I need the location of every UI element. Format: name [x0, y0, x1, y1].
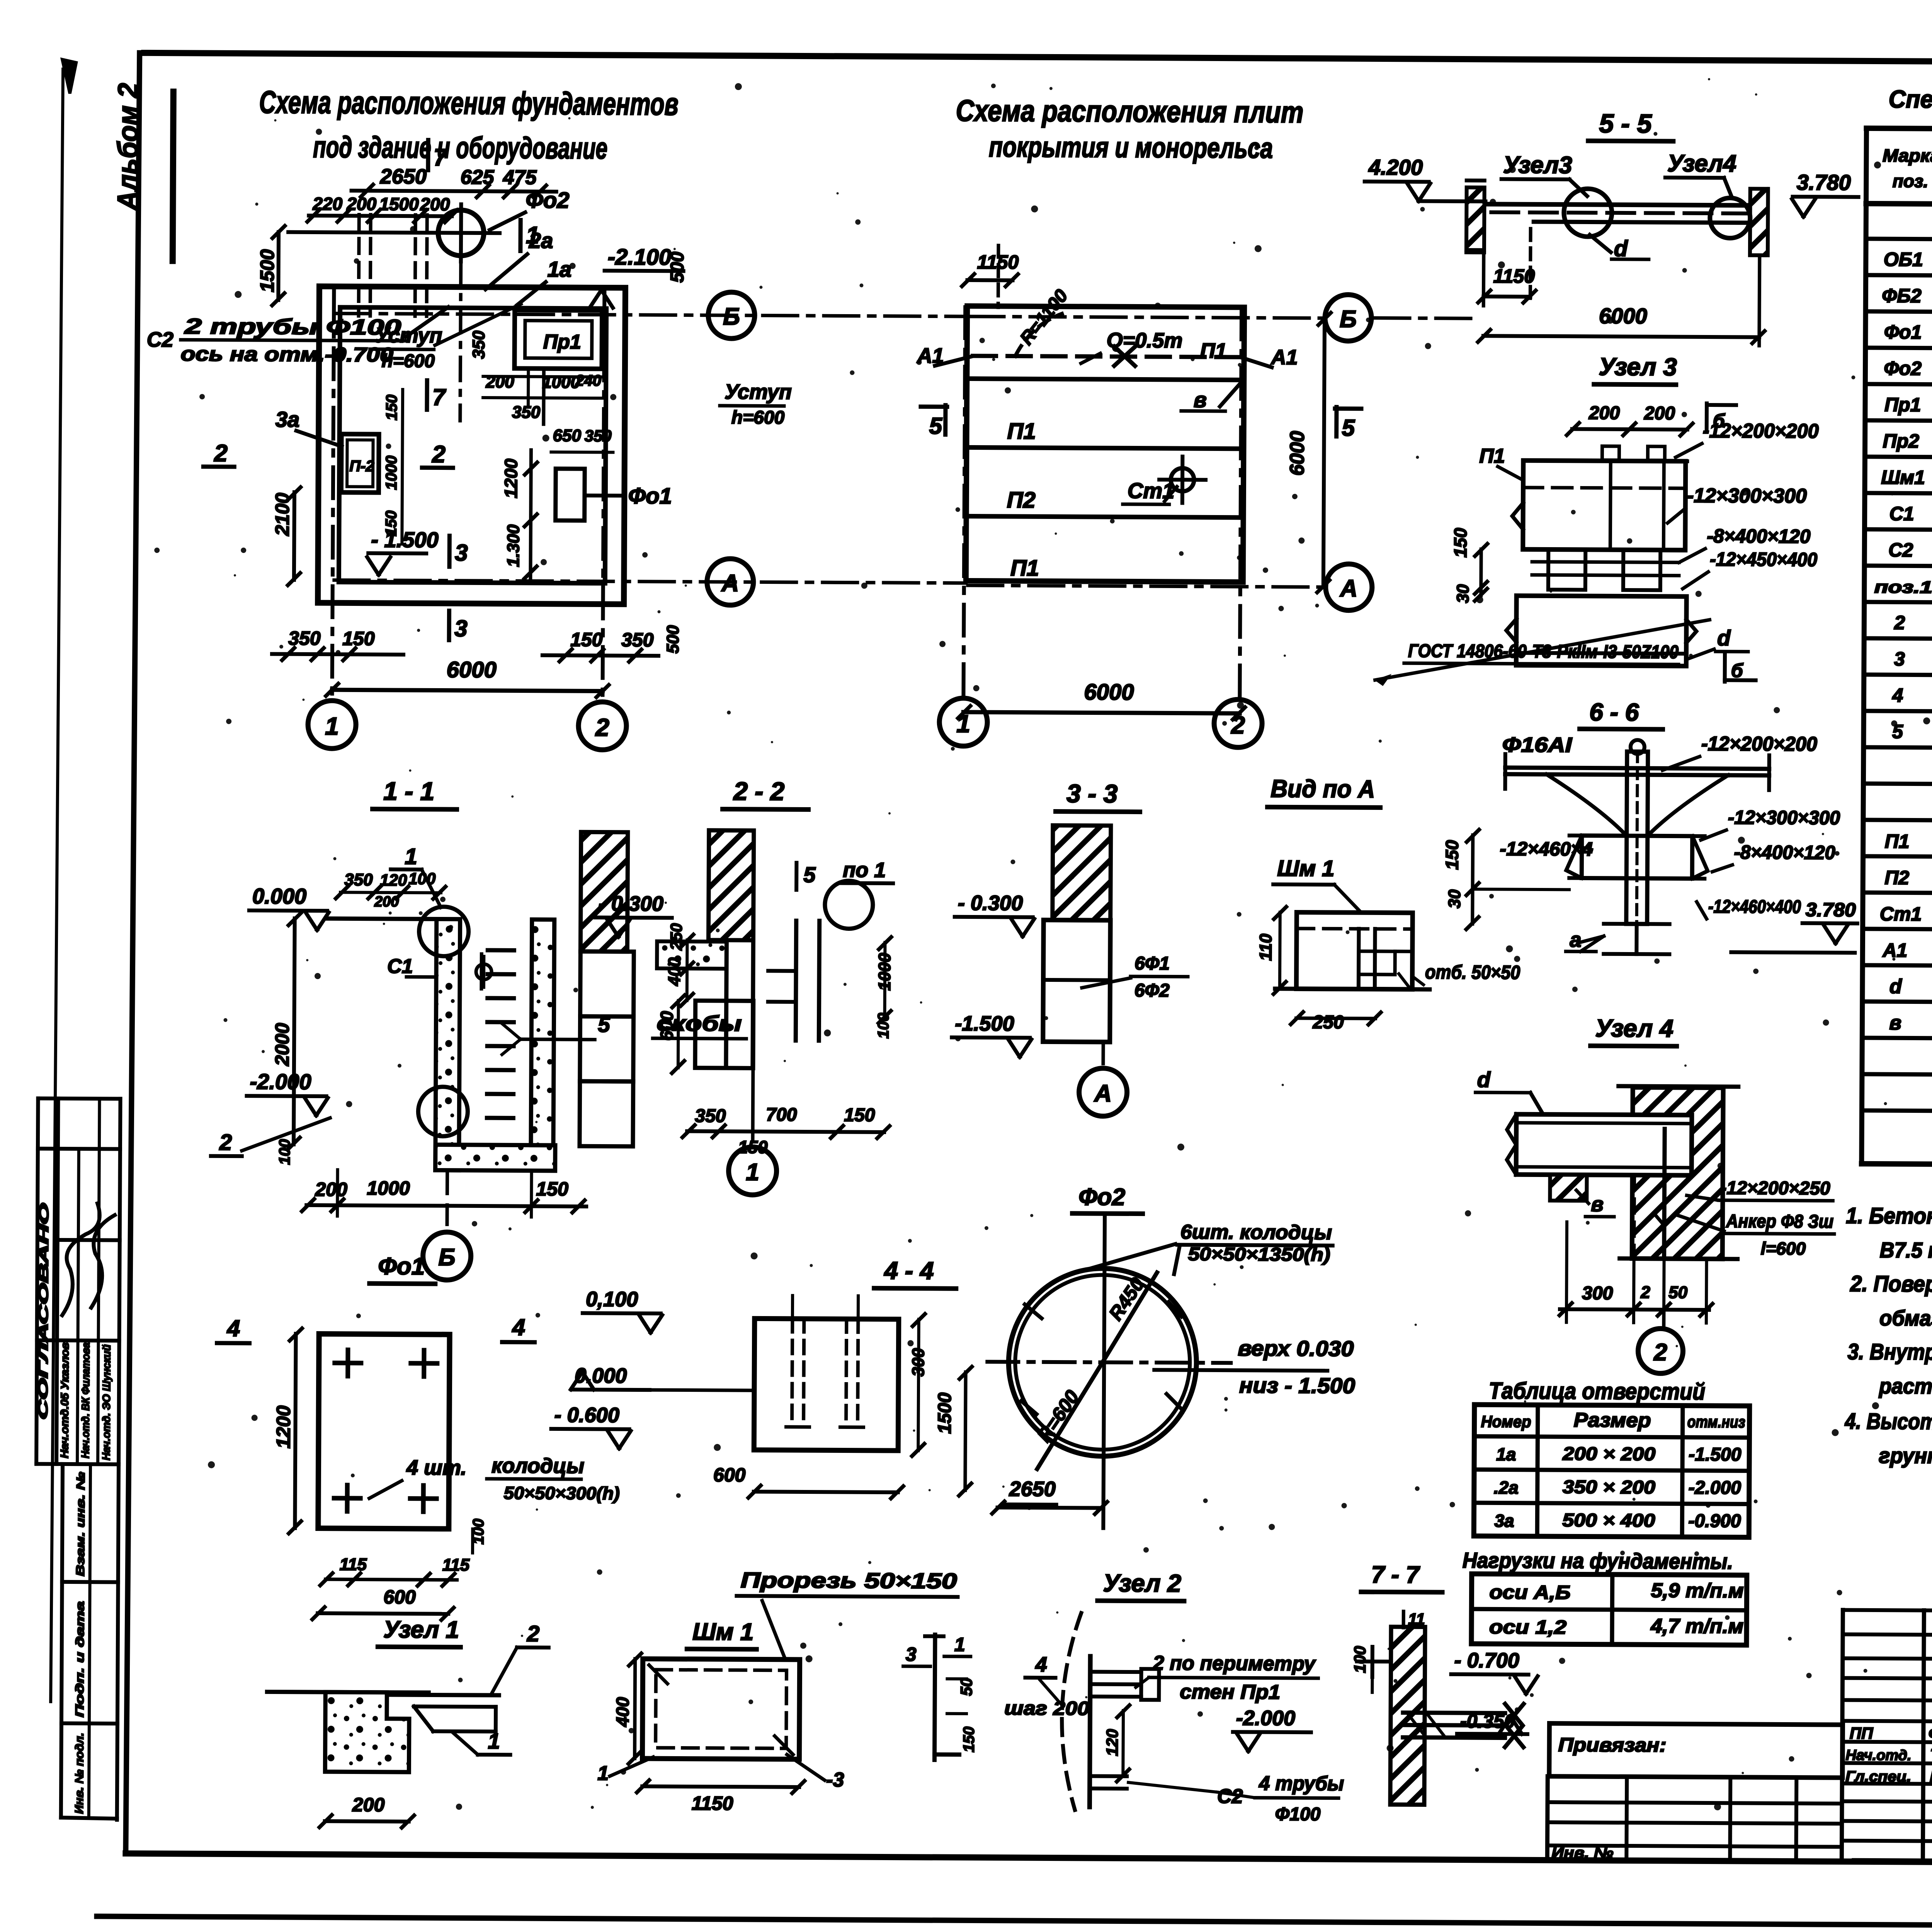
- axis line Б: [335, 313, 967, 316]
- left margin stamp grid СОГЛАСОВАНО: [38, 1099, 121, 1099]
- svg-text:Узел3: Узел3: [1503, 151, 1572, 179]
- svg-text:7: 7: [434, 144, 448, 171]
- svg-text:-2.000: -2.000: [1236, 1706, 1295, 1730]
- 7-7 top mark 11: [1402, 1611, 1405, 1628]
- svg-text:150: 150: [1450, 528, 1470, 558]
- pit П-2 outer: [341, 434, 379, 492]
- svg-text:Нач.отд.05 Указлов: Нач.отд.05 Указлов: [58, 1342, 71, 1458]
- svg-text:- 0.700: - 0.700: [1454, 1649, 1519, 1672]
- svg-text:в: в: [1591, 1193, 1604, 1216]
- svg-text:а: а: [1570, 928, 1581, 951]
- svg-text:50×50×1350(h): 50×50×1350(h): [1188, 1244, 1330, 1265]
- plan TM outer rect: [966, 306, 1244, 582]
- foundation Фо1 rect in plan: [556, 469, 585, 520]
- svg-text:1: 1: [597, 1762, 609, 1784]
- svg-text:Пр1: Пр1: [1884, 394, 1921, 415]
- plan TM slab line 2: [967, 447, 1244, 449]
- svg-text:3. Внутренние поверхности п: 3. Внутренние поверхности приямка Пр1 за…: [1847, 1339, 1932, 1367]
- svg-text:Альбом 2: Альбом 2: [111, 83, 144, 211]
- drawing frame left border: [126, 53, 139, 1854]
- svg-text:Нач.отд. ЭО Шунский: Нач.отд. ЭО Шунский: [100, 1344, 112, 1460]
- 1-1 pipe С1 symbol: [480, 954, 483, 989]
- section mark 3 inner: [447, 536, 452, 567]
- svg-text:4: 4: [512, 1314, 526, 1340]
- svg-text:1. Бетонную подготовку под: 1. Бетонную подготовку под приямки выпол…: [1846, 1203, 1932, 1232]
- svg-text:2000: 2000: [271, 1023, 293, 1066]
- svg-text:1: 1: [405, 844, 417, 869]
- svg-text:Уступ: Уступ: [724, 380, 792, 404]
- svg-text:Пр2: Пр2: [1883, 430, 1919, 452]
- svg-text:Марка: Марка: [1883, 145, 1932, 166]
- holes table grid: [1474, 1405, 1750, 1537]
- svg-text:отб. 50×50: отб. 50×50: [1425, 961, 1520, 983]
- svg-text:-2.100: -2.100: [608, 245, 672, 270]
- svg-text:240: 240: [575, 372, 601, 389]
- svg-text:400: 400: [612, 1697, 633, 1727]
- svg-text:0,100: 0,100: [586, 1287, 638, 1311]
- svg-text:Ст1: Ст1: [1880, 903, 1922, 925]
- svg-text:2: 2: [1640, 1283, 1650, 1302]
- svg-text:1: 1: [325, 712, 339, 740]
- svg-text:700: 700: [766, 1105, 797, 1125]
- svg-text:5: 5: [929, 413, 943, 439]
- Фо2 radius R=600: [1037, 1362, 1102, 1469]
- paper corner mark top-left: [62, 60, 76, 94]
- Фо2 radius R450: [1102, 1272, 1157, 1363]
- svg-text:6000: 6000: [447, 657, 497, 683]
- svg-text:Филатова: Филатова: [1929, 1725, 1932, 1743]
- 3-3 masonry hatch column: [1053, 825, 1111, 920]
- 7-7 pipes through wall: [1403, 1713, 1505, 1713]
- plan TL dim row 2650 825 475: [352, 190, 556, 191]
- plan TL crosshair axis down: [460, 262, 461, 421]
- signature squiggles: [62, 1203, 100, 1315]
- svg-text:Привязан:: Привязан:: [1558, 1734, 1667, 1756]
- svg-text:600: 600: [713, 1464, 746, 1486]
- svg-text:П1: П1: [1885, 830, 1910, 852]
- svg-text:ПП: ПП: [1850, 1724, 1873, 1742]
- pit Пр1 inner: [525, 321, 592, 359]
- svg-text:3 - 3: 3 - 3: [1066, 779, 1117, 808]
- svg-text:200: 200: [374, 894, 399, 910]
- left lower grid rows: [1548, 1776, 1842, 1778]
- svg-text:1200: 1200: [272, 1405, 294, 1449]
- svg-text:6000: 6000: [1084, 679, 1134, 705]
- svg-text:625: 625: [461, 166, 495, 189]
- 1-1 trench left wall concrete: [435, 919, 460, 1170]
- plan TL dashed pipe risers: [359, 215, 359, 316]
- svg-text:1500: 1500: [934, 1392, 955, 1434]
- svg-text:6000: 6000: [1286, 431, 1309, 476]
- svg-text:6Ф1: 6Ф1: [1134, 953, 1170, 974]
- svg-text:П2: П2: [1007, 487, 1036, 512]
- svg-text:150: 150: [1442, 840, 1462, 870]
- svg-text:200: 200: [1644, 403, 1675, 423]
- svg-text:Фо2: Фо2: [1078, 1184, 1125, 1211]
- svg-text:4.200: 4.200: [1368, 155, 1423, 180]
- svg-text:-12×300×300: -12×300×300: [1687, 485, 1807, 507]
- Фо2 leader 6шт колодцы: [1083, 1243, 1175, 1271]
- plan TL outer wall: [318, 286, 626, 604]
- svg-text:2: 2: [432, 441, 446, 468]
- pit Пр1 outer: [514, 310, 602, 369]
- svg-text:3.780: 3.780: [1806, 899, 1856, 921]
- Узел3 lower beam: [1517, 596, 1687, 597]
- svg-text:- 0.300: - 0.300: [958, 891, 1023, 915]
- svg-text:Взам. инв. №: Взам. инв. №: [74, 1472, 87, 1576]
- svg-text:Схема расположения фундаментов: Схема расположения фундаментов: [259, 85, 678, 122]
- svg-text:115: 115: [442, 1556, 470, 1575]
- svg-text:А: А: [1094, 1080, 1112, 1107]
- svg-text:Подп. и дата: Подп. и дата: [73, 1601, 87, 1717]
- svg-text:Темкин: Темкин: [1930, 1746, 1932, 1764]
- svg-text:100: 100: [408, 869, 435, 888]
- section mark 5 right: [1334, 407, 1338, 436]
- svg-text:Инв. № подл.: Инв. № подл.: [73, 1733, 86, 1814]
- svg-text:-8×400×120: -8×400×120: [1734, 841, 1835, 863]
- Узел1 bracket: [388, 1695, 499, 1695]
- svg-text:3: 3: [1894, 648, 1905, 670]
- svg-text:- 0.300: - 0.300: [599, 892, 663, 915]
- svg-text:11: 11: [1408, 1610, 1425, 1628]
- plan TL axis 1 extension: [332, 289, 334, 701]
- 4-4 body rect: [754, 1318, 899, 1451]
- svg-text:600: 600: [383, 1586, 416, 1608]
- svg-text:0.000: 0.000: [575, 1364, 627, 1388]
- axis circle 1: [308, 701, 356, 749]
- svg-text:С2: С2: [147, 328, 173, 351]
- plan TM slab line 3: [966, 516, 1243, 517]
- svg-text:5: 5: [598, 1012, 610, 1036]
- svg-text:2: 2: [527, 1621, 540, 1646]
- svg-text:d: d: [1477, 1067, 1491, 1092]
- svg-text:С1: С1: [387, 955, 413, 978]
- 1-1 detail circle bottom: [418, 1087, 468, 1136]
- svg-text:650: 650: [553, 426, 582, 445]
- svg-text:350: 350: [621, 629, 654, 651]
- svg-text:2: 2: [595, 713, 609, 741]
- svg-text:А: А: [1339, 575, 1357, 602]
- svg-text:-12×300×300: -12×300×300: [1728, 806, 1840, 828]
- spec table grid: [1866, 128, 1932, 132]
- svg-text:350: 350: [512, 403, 541, 422]
- svg-text:Шм1: Шм1: [1881, 466, 1925, 488]
- svg-text:100: 100: [276, 1139, 293, 1165]
- svg-text:1: 1: [746, 1159, 759, 1185]
- axis line А: [334, 580, 966, 583]
- svg-text:120: 120: [380, 871, 407, 889]
- 1-1 inner rungs скобы: [488, 948, 514, 952]
- svg-text:5: 5: [1342, 415, 1355, 441]
- svg-text:200: 200: [315, 1179, 347, 1200]
- svg-text:Фо1: Фо1: [1884, 321, 1922, 343]
- pit П-2 inner: [347, 440, 373, 486]
- plan TL inner wall: [339, 307, 606, 583]
- 2-2 block: [695, 1001, 753, 1068]
- svg-text:300: 300: [1582, 1283, 1613, 1303]
- svg-text:4: 4: [1035, 1653, 1047, 1676]
- svg-text:-12×200×200: -12×200×200: [1703, 420, 1819, 442]
- Узел4 wall bottom line: [1620, 1259, 1738, 1259]
- svg-text:Узел4: Узел4: [1667, 150, 1736, 177]
- plan TL dim row 220 200 1500 200: [309, 216, 452, 216]
- 7-7 arrow marks right: [1505, 1704, 1523, 1747]
- svg-text:150: 150: [844, 1105, 875, 1125]
- axis circle 1 TM: [939, 698, 988, 747]
- svg-text:3: 3: [906, 1643, 917, 1665]
- svg-text:2 по периметру: 2 по периметру: [1153, 1652, 1316, 1675]
- svg-text:150: 150: [961, 1726, 978, 1752]
- 1-1 trench right wall: [531, 920, 554, 1145]
- svg-text:.2а: .2а: [1494, 1477, 1519, 1497]
- beam 5-5 right support hatch: [1750, 189, 1768, 255]
- svg-text:50×50×300(h): 50×50×300(h): [504, 1483, 620, 1503]
- svg-text:ось на отм.-0.700: ось на отм.-0.700: [180, 343, 393, 366]
- axis circle Б shared: [708, 292, 755, 339]
- Шм1 corner slash marks: [649, 1665, 667, 1684]
- svg-text:6Ф2: 6Ф2: [1134, 980, 1170, 1001]
- svg-text:Фо1: Фо1: [378, 1253, 425, 1280]
- svg-text:- 1.500: - 1.500: [371, 527, 439, 552]
- 1-1 axis circle Б: [446, 1170, 449, 1225]
- svg-text:d: d: [1614, 236, 1628, 261]
- Вид по А body: [1296, 912, 1413, 989]
- svg-text:Гл.спец.: Гл.спец.: [1845, 1769, 1911, 1785]
- plan TM slab line 1: [967, 379, 1244, 380]
- svg-text:2650: 2650: [380, 165, 427, 189]
- svg-text:Узел 3: Узел 3: [1599, 353, 1677, 381]
- svg-text:4 трубы: 4 трубы: [1259, 1772, 1344, 1795]
- svg-text:50: 50: [1668, 1283, 1688, 1302]
- svg-text:6шт. колодцы: 6шт. колодцы: [1180, 1221, 1332, 1244]
- svg-text:100: 100: [1351, 1646, 1369, 1673]
- svg-text:2: 2: [1231, 711, 1245, 739]
- svg-text:Б: Б: [1340, 306, 1357, 332]
- svg-text:поз.: поз.: [1893, 171, 1929, 191]
- svg-text:d: d: [1889, 975, 1902, 998]
- 2-2 ledge plate: [657, 941, 726, 969]
- svg-text:С2: С2: [1888, 539, 1913, 561]
- 2-2 rungs: [768, 969, 792, 973]
- section mark 3 below: [447, 611, 451, 640]
- svg-text:1: 1: [954, 1634, 965, 1655]
- svg-text:30: 30: [1445, 889, 1464, 908]
- svg-text:-0.900: -0.900: [1688, 1511, 1741, 1532]
- svg-text:1500: 1500: [256, 249, 278, 293]
- svg-text:1а: 1а: [1496, 1444, 1516, 1464]
- drawing frame top border: [144, 53, 1932, 65]
- svg-text:1а: 1а: [548, 257, 572, 281]
- svg-text:оси А,Б: оси А,Б: [1489, 1581, 1570, 1603]
- 3-3 axis circle А: [1101, 1042, 1105, 1064]
- svg-text:3: 3: [455, 540, 468, 566]
- svg-text:350: 350: [288, 628, 321, 649]
- left margin stamp grid inv no: [61, 1464, 63, 1818]
- monorail x mark: [1114, 347, 1135, 366]
- Узел4 beam white over wall: [1516, 1114, 1692, 1175]
- axis circle 2 TM: [1214, 699, 1262, 748]
- svg-text:Инв. №: Инв. №: [1551, 1844, 1613, 1862]
- 2-2 wall below: [726, 940, 727, 1068]
- svg-text:1.300: 1.300: [504, 524, 523, 567]
- svg-text:4 шт.: 4 шт.: [406, 1456, 467, 1480]
- 1-1 ground line: [327, 918, 439, 919]
- beam 5-5 left support hatch: [1466, 187, 1485, 250]
- svg-text:250: 250: [1312, 1012, 1344, 1032]
- svg-text:- 0.600: - 0.600: [554, 1403, 619, 1427]
- svg-text:2: 2: [1653, 1339, 1667, 1366]
- svg-text:1000: 1000: [383, 456, 400, 490]
- svg-text:Спецификация к схемам располож: Спецификация к схемам расположения фунда…: [1889, 85, 1932, 117]
- svg-text:120: 120: [1103, 1729, 1121, 1756]
- Узел4 axis circle 2: [1662, 1310, 1665, 1328]
- Фо2 axis horizontal dash-dot: [987, 1362, 1231, 1363]
- svg-text:Узел 1: Узел 1: [383, 1616, 459, 1643]
- Привязан box: [1549, 1723, 1843, 1778]
- svg-text:по 1: по 1: [843, 858, 886, 882]
- 1-1 masonry hatch column: [580, 832, 628, 952]
- svg-text:П1: П1: [1479, 445, 1505, 467]
- svg-text:2: 2: [214, 440, 228, 467]
- Фо2 axis vertical: [1103, 1216, 1105, 1528]
- svg-text:Б: Б: [438, 1244, 455, 1271]
- svg-text:5,9 т/п.м: 5,9 т/п.м: [1651, 1579, 1743, 1602]
- svg-text:-12×450×400: -12×450×400: [1710, 548, 1817, 570]
- Узел4 angle seat: [1550, 1175, 1587, 1201]
- svg-text:2. Поверхности фундаментных: 2. Поверхности фундаментных блоков, прик…: [1850, 1271, 1932, 1300]
- svg-text:отм.низ: отм.низ: [1687, 1413, 1745, 1431]
- svg-text:обмазать битумом за 2 раза.: обмазать битумом за 2 раза.: [1879, 1306, 1932, 1332]
- Фо2 circle outer: [1008, 1268, 1197, 1456]
- axis circle А shared: [707, 559, 754, 605]
- 2-2 detail circle: [825, 881, 873, 929]
- svg-text:2а: 2а: [529, 228, 553, 253]
- svg-text:Таблица отверстий: Таблица отверстий: [1489, 1378, 1705, 1405]
- svg-text:3: 3: [454, 616, 468, 641]
- svg-text:верх 0.030: верх 0.030: [1238, 1336, 1354, 1361]
- Узел1 concrete block: [325, 1692, 409, 1772]
- svg-text:350 × 200: 350 × 200: [1563, 1477, 1656, 1498]
- svg-text:350: 350: [695, 1106, 726, 1126]
- svg-text:Узел 2: Узел 2: [1103, 1569, 1181, 1597]
- Узел4 beam outline: [1516, 1114, 1692, 1175]
- svg-text:5: 5: [803, 862, 816, 887]
- svg-text:СОГЛАСОВАНО: СОГЛАСОВАНО: [36, 1203, 52, 1420]
- svg-text:в: в: [1194, 388, 1207, 412]
- svg-text:Размер: Размер: [1574, 1409, 1651, 1432]
- svg-text:-12×460×4: -12×460×4: [1500, 838, 1592, 860]
- svg-text:П-2: П-2: [349, 457, 374, 474]
- svg-text:-12×460×400: -12×460×400: [1708, 896, 1801, 917]
- svg-text:колодцы: колодцы: [492, 1454, 584, 1478]
- Узел2 dashed boundary arc: [1061, 1613, 1081, 1810]
- svg-text:раствором с железнением.: раствором с железнением.: [1878, 1374, 1932, 1399]
- svg-text:Нач.отд.: Нач.отд.: [1845, 1747, 1911, 1764]
- Узел3 rail clamp plates: [1548, 549, 1585, 590]
- Узел4 anchor rod: [1664, 1129, 1665, 1257]
- svg-text:600: 600: [656, 1011, 677, 1041]
- svg-text:5 - 5: 5 - 5: [1599, 109, 1652, 139]
- svg-text:4: 4: [1892, 684, 1903, 706]
- Шм1 plate rect: [643, 1659, 800, 1759]
- 2-2 axis circle 1: [751, 1068, 755, 1139]
- title block left grid: [1843, 1610, 1932, 1612]
- svg-text:220: 220: [312, 194, 342, 214]
- svg-text:2650: 2650: [1009, 1477, 1056, 1501]
- svg-text:А: А: [721, 570, 739, 597]
- 1-1 block wall below: [580, 951, 634, 1017]
- svg-text:шаг 200: шаг 200: [1004, 1697, 1089, 1719]
- Узел3 mark б top: [1705, 403, 1709, 430]
- svg-text:500: 500: [663, 625, 682, 653]
- Фо2 tick marks on circle: [1025, 1304, 1042, 1318]
- 6-6 I-beam below: [1604, 922, 1670, 926]
- svg-text:б: б: [1731, 660, 1744, 681]
- svg-text:низ - 1.500: низ - 1.500: [1239, 1373, 1355, 1398]
- svg-text:под здание и оборудование: под здание и оборудование: [313, 130, 607, 165]
- svg-text:150: 150: [383, 395, 400, 420]
- 6-6 clamp assembly: [1570, 835, 1705, 836]
- Шм1 inner dashed rect: [656, 1670, 787, 1748]
- svg-text:оси 1,2: оси 1,2: [1489, 1616, 1566, 1638]
- svg-text:4,7 т/п.м: 4,7 т/п.м: [1650, 1615, 1743, 1638]
- svg-text:l=600: l=600: [1761, 1238, 1806, 1259]
- svg-text:Шм 1: Шм 1: [1277, 856, 1334, 881]
- plan TL Пр1 leader down: [542, 369, 546, 424]
- svg-text:А1: А1: [1270, 346, 1298, 369]
- svg-text:110: 110: [1256, 934, 1275, 961]
- detail bent plate lines: [934, 1635, 935, 1760]
- plan TL pipe circle with crosshair: [438, 210, 484, 256]
- loads table grid: [1471, 1574, 1747, 1645]
- svg-text:500: 500: [667, 252, 688, 283]
- monorail dashed line: [973, 356, 1242, 357]
- svg-text:150: 150: [570, 629, 603, 650]
- svg-text:200: 200: [1588, 403, 1620, 423]
- 4-4 top ticks: [791, 1296, 794, 1319]
- svg-text:-3: -3: [826, 1769, 844, 1791]
- left border inner segment: [173, 92, 173, 261]
- 2-2 masonry hatch column: [708, 830, 753, 940]
- svg-text:115: 115: [340, 1555, 367, 1574]
- svg-text:Анкер Ф8 Зш: Анкер Ф8 Зш: [1726, 1211, 1833, 1232]
- svg-text:Ф100: Ф100: [1275, 1804, 1321, 1825]
- svg-text:1150: 1150: [692, 1793, 733, 1815]
- svg-text:-8×400×120: -8×400×120: [1707, 525, 1810, 547]
- svg-text:2: 2: [1894, 612, 1905, 633]
- Фо2 circle inner: [1015, 1275, 1190, 1450]
- 6-6 hanger rod: [1626, 752, 1648, 924]
- svg-text:С1: С1: [1889, 503, 1914, 524]
- svg-text:Вид по А: Вид по А: [1270, 775, 1375, 803]
- Узел4 wall hatch: [1632, 1087, 1723, 1259]
- svg-text:П1: П1: [1010, 555, 1039, 580]
- svg-text:200: 200: [346, 194, 376, 214]
- svg-text:П1: П1: [1007, 418, 1036, 444]
- svg-text:поз.1: поз.1: [1874, 578, 1932, 597]
- Фо1 well crosses: [335, 1361, 361, 1365]
- svg-text:1500: 1500: [379, 194, 419, 214]
- plan TL axis 2 extension: [602, 290, 604, 702]
- axis circle Б right: [1325, 294, 1372, 341]
- svg-text:Ф16АІ: Ф16АІ: [1502, 733, 1572, 757]
- axis circle А right: [1326, 564, 1372, 611]
- svg-text:Прорезь 50×150: Прорезь 50×150: [741, 1568, 957, 1593]
- svg-text:покрытия и монорельса: покрытия и монорельса: [989, 131, 1273, 164]
- svg-text:3а: 3а: [1494, 1510, 1514, 1531]
- svg-text:ФБ2: ФБ2: [1882, 285, 1922, 306]
- Узел3 slab П1 body: [1523, 461, 1685, 550]
